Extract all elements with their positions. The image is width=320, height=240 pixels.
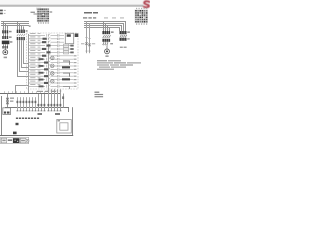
PLC A1 <box>37 8 49 24</box>
label mark b <box>16 123 19 125</box>
rung 5 <box>29 47 74 51</box>
rung 15 <box>29 81 77 85</box>
disconnect grpA <box>102 42 113 45</box>
terminal X2-3 <box>44 94 46 111</box>
coil KM1 <box>62 66 70 68</box>
wire feeder 4 <box>18 40 29 76</box>
terminal X1-3 <box>23 97 25 111</box>
label PE <box>29 25 31 27</box>
wire drop1 b <box>5 23 6 30</box>
wire drop2 n <box>23 26 24 29</box>
ticks93 <box>4 91 45 92</box>
enclosure right <box>72 107 73 135</box>
terminal X1-7 <box>35 97 37 111</box>
wire cbus 1 <box>84 22 126 32</box>
rung 13 <box>29 74 77 78</box>
terminal X2-6 <box>54 89 56 111</box>
label heading <box>84 12 98 14</box>
enclosure bottom <box>0 135 73 136</box>
terminal X1-6 <box>32 97 34 111</box>
contacts KM3 <box>103 35 111 38</box>
terminal X1-1 <box>17 97 19 111</box>
rung 14 <box>29 77 77 81</box>
contactor KM1 <box>2 36 11 39</box>
header band <box>0 0 150 5</box>
rung 8 <box>29 57 77 61</box>
breaker Q2 <box>17 30 28 33</box>
terminal X2-1 <box>38 94 40 111</box>
wire Q1-KM1 <box>3 33 8 36</box>
breaker Q3 <box>102 29 113 34</box>
psu G1 <box>3 108 11 115</box>
terminal X1-2 <box>20 97 22 111</box>
note mark 1 <box>0 10 3 12</box>
wire grpA 0 <box>103 21 104 31</box>
lamp H2 <box>51 64 55 68</box>
wire grpA 2 <box>107 25 108 31</box>
enclosure left <box>1 96 2 135</box>
rung 10 <box>29 64 77 68</box>
coil KM2 <box>62 78 70 80</box>
rung 4 <box>29 43 74 47</box>
label U2 r <box>55 113 60 115</box>
note mark 2 <box>0 13 3 15</box>
wire hook1 <box>63 61 70 65</box>
label mark c <box>13 132 17 135</box>
heater E1 <box>120 38 130 41</box>
fuse F3 <box>81 21 88 53</box>
wire drop1 c <box>7 25 8 30</box>
header rule <box>0 5 144 6</box>
rail lamp supply <box>48 44 49 92</box>
wire feeder 3 <box>20 40 29 71</box>
label U2 l <box>38 113 43 115</box>
rung 2 <box>29 36 64 40</box>
wire A1 pin <box>34 14 38 15</box>
wire cbus 3 <box>84 26 122 32</box>
lamp H3 <box>51 72 55 76</box>
terminal X2-7 <box>57 89 59 111</box>
terminal X0 <box>2 46 8 49</box>
terminal X2-8 <box>60 89 62 111</box>
legend text <box>95 92 104 98</box>
wire hook3 <box>63 87 70 90</box>
wire feeder 2 <box>22 40 29 67</box>
rung 3 <box>29 40 64 44</box>
wire X0-M1 <box>5 49 6 50</box>
wire drop2 a <box>17 21 18 30</box>
terminal X1-5 <box>29 97 31 111</box>
rung 11 <box>29 67 77 71</box>
label bottom row <box>37 91 56 92</box>
label terms <box>83 17 124 18</box>
contactor KM2 <box>17 37 25 40</box>
wire L2 bus <box>1 23 29 24</box>
contacts Q2 aux <box>17 34 25 36</box>
wire grpA 3 <box>109 27 110 31</box>
motor M2 <box>105 49 110 57</box>
wire drop2 c <box>21 25 22 30</box>
rung 9 <box>29 60 77 64</box>
wire M2 <box>107 45 108 49</box>
wire return <box>16 86 29 94</box>
wire cbus 2 <box>84 24 124 32</box>
cabinet dashed box <box>27 33 79 89</box>
wire F2-X <box>3 44 8 46</box>
terminal X2-4 <box>48 89 50 111</box>
terminal X2-5 <box>51 89 53 111</box>
wire L1 bus <box>1 21 29 22</box>
junction J63 <box>62 94 64 108</box>
wire L3 bus <box>1 25 29 26</box>
label A1 <box>31 12 35 13</box>
wire feeder 1 <box>24 40 29 63</box>
wire cbus 4 <box>84 28 120 32</box>
wire tbus corner <box>68 108 69 112</box>
contacts KM4 <box>120 35 127 38</box>
breaker Q4 <box>120 31 130 34</box>
rung 16 <box>29 84 77 88</box>
rung 1 <box>29 33 64 37</box>
relay K1 <box>65 33 73 43</box>
title strip <box>1 137 30 143</box>
overload F2 <box>2 41 13 45</box>
label E1 <box>120 47 127 48</box>
overload F5 <box>102 39 110 42</box>
monitor U2 <box>57 120 72 134</box>
wire main93 <box>0 93 61 94</box>
motor M1 <box>3 50 8 58</box>
wire tbus <box>5 107 69 108</box>
rung 6 <box>29 50 74 54</box>
lamp H4 <box>51 79 55 83</box>
rail <box>28 34 29 93</box>
rung 12 <box>29 70 77 74</box>
fuse F4 <box>88 23 95 53</box>
terminal X2-2 <box>41 94 43 111</box>
fuse F6 <box>6 94 14 108</box>
breaker Q1 <box>2 28 11 33</box>
wire hook2 <box>63 73 70 77</box>
label K1 tag <box>75 34 79 38</box>
wire grpA 1 <box>105 23 106 31</box>
PLC A2 <box>135 8 148 25</box>
note text <box>97 60 141 69</box>
watermark <box>36 8 41 10</box>
rung 7 <box>29 53 77 57</box>
lamp H1 <box>51 56 55 60</box>
labels X1 <box>16 118 39 120</box>
label A1 r <box>50 11 53 12</box>
wire drop2 b <box>19 23 20 30</box>
wire drop1 a <box>3 21 4 30</box>
terminal X1-4 <box>26 97 28 111</box>
